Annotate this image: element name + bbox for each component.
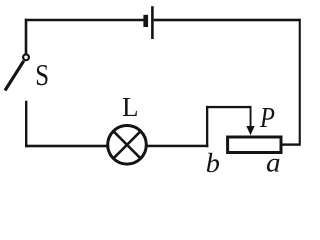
lamp L1: cross	[113, 131, 140, 158]
lamp L1: circle	[108, 126, 147, 165]
svg-text:b: b	[206, 147, 220, 177]
rheostat slider arrow P	[246, 106, 254, 135]
wire: bottom-left (corner to lamp)	[25, 145, 108, 148]
svg-text:L: L	[122, 92, 139, 122]
wire: top-left horizontal (corner to battery)	[25, 19, 144, 22]
rheostat R1 body	[228, 137, 281, 153]
svg-text:S: S	[35, 58, 49, 92]
switch S: pivot circle	[23, 54, 29, 60]
wire: left upper vertical (top corner to switch)	[25, 19, 28, 55]
wire: slider vertical down to bottom wire	[206, 106, 208, 147]
wire: rheostat right terminal to right vertical	[282, 143, 300, 145]
wire: top-right horizontal (battery to corner)	[154, 19, 301, 22]
svg-text:a: a	[266, 149, 281, 177]
wire: right vertical	[299, 19, 301, 146]
battery B1: short thick plate (negative)	[143, 15, 148, 27]
wire: slider horizontal (to arrow)	[206, 106, 252, 108]
wire: bottom (lamp right to slider vertical)	[146, 145, 208, 148]
wire: left lower vertical (switch to bottom corner)	[25, 101, 27, 148]
switch S: lever blade	[5, 61, 24, 91]
battery B1: long thin plate (positive)	[151, 6, 154, 39]
svg-text:P: P	[259, 102, 275, 133]
